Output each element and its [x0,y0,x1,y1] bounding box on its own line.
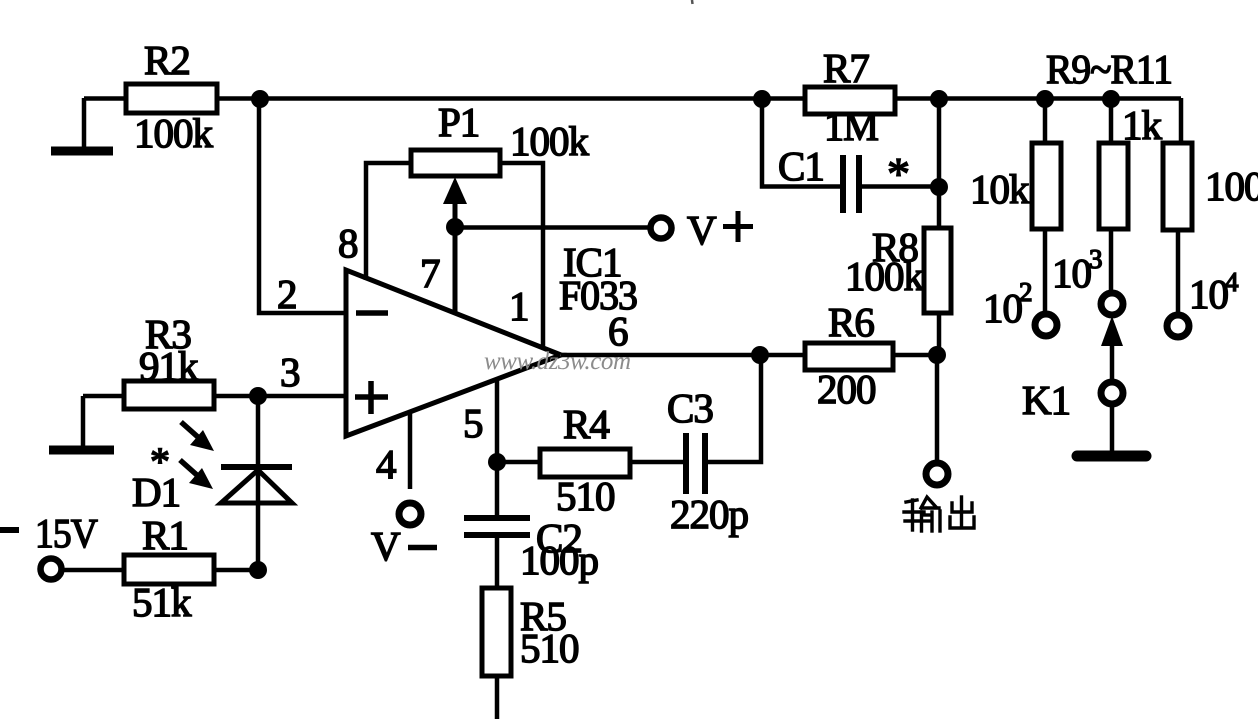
svg-text:5: 5 [463,400,483,446]
svg-text:7: 7 [420,250,440,296]
svg-text:10: 10 [1189,271,1228,317]
svg-text:100k: 100k [134,110,214,156]
svg-text:1M: 1M [824,103,879,149]
svg-text:510: 510 [556,473,615,519]
wire C2 to R5 [495,535,500,719]
svg-text:100k: 100k [510,118,590,164]
svg-text:*: * [887,148,910,199]
terminal V- [399,503,421,525]
svg-text:51k: 51k [132,579,192,625]
svg-text:100k: 100k [845,253,925,299]
svg-text:100p: 100p [520,537,598,583]
svg-text:1k: 1k [1122,102,1163,148]
capacitor C2 [464,518,530,535]
terminal -15V [41,559,62,580]
terminal K1 pole [1101,382,1123,404]
wire R8 column [937,98,942,355]
wire C1 branch [762,98,843,187]
svg-text:F033: F033 [559,272,637,318]
wire R4 row [497,460,686,465]
svg-text:C3: C3 [667,385,713,431]
potentiometer P1 [411,150,500,176]
terminal 10^4 [1167,315,1189,337]
node R6-R8 [928,346,946,364]
wiper arrow of P1 [443,177,467,313]
svg-text:2: 2 [1019,277,1033,307]
wire pin4 stem [408,413,413,489]
wire P1 right leg to pin1 [500,163,543,347]
node pin6 [751,346,769,364]
diode D1 [221,467,292,503]
svg-text:2: 2 [277,271,297,317]
resistor R11 [1163,143,1192,230]
svg-text:10k: 10k [970,166,1030,212]
wire P1 left leg to pin8 [366,163,411,280]
node R9 top [1036,90,1054,108]
terminal V+ [651,218,672,239]
svg-text:15V: 15V [35,510,98,556]
wire R9 column [1043,98,1048,313]
ground G1 [51,147,113,156]
ground G3 [1077,451,1146,462]
svg-text:R6: R6 [828,299,874,345]
node wiper junction [446,218,464,236]
light arrow 2 [180,460,213,489]
svg-text:C1: C1 [778,143,824,189]
node pin5-R4 [488,453,506,471]
resistor R8 [924,228,951,313]
svg-text:R2: R2 [144,37,190,83]
node R1-D1 [249,561,267,579]
wire R11 column [1179,98,1184,143]
resistor R10 [1099,143,1128,229]
wire K1 to ground [1110,405,1115,452]
wire R10 column [1109,98,1114,291]
svg-text:220p: 220p [670,491,748,537]
terminal 10^2 [1035,314,1057,336]
resistor R5 [482,588,511,676]
svg-text:R9~R11: R9~R11 [1046,46,1172,92]
node 3 [249,387,267,405]
capacitor C3 [686,433,705,494]
wire R1 row [63,568,258,573]
resistor R9 [1032,143,1061,229]
svg-text:200: 200 [817,366,876,412]
svg-text:V: V [687,207,717,253]
svg-text:V: V [371,523,401,569]
resistor R2 [126,84,217,113]
node C1 right [930,178,948,196]
wire output drop [935,355,940,462]
svg-text:3: 3 [1089,244,1103,274]
node R2-out [251,90,269,108]
resistor R1 [124,555,214,584]
wire pin2 from node to op-amp [259,98,346,313]
wire R3 ground stem [81,396,86,447]
svg-text:*: * [150,439,170,484]
svg-text:91k: 91k [139,343,199,389]
svg-text:R1: R1 [142,512,188,558]
light arrow 1 [181,422,214,451]
wire R2 ground stem [82,98,87,149]
svg-text:1: 1 [509,283,529,329]
scan tick [691,0,694,4]
label shuchu (output) [904,497,974,531]
svg-text:R4: R4 [563,401,609,447]
svg-text:8: 8 [338,220,358,266]
svg-text:3: 3 [280,349,300,395]
switch K1 wiper arrow [1101,316,1123,381]
capacitor C1 [843,155,859,213]
op-amp plus input mark [355,381,388,414]
resistor R4 [540,449,630,477]
op-amp U1 body [346,270,561,436]
node R10 top [1102,90,1120,108]
wire top rail [84,96,1181,101]
svg-text:R7: R7 [823,45,869,91]
wire R3 row [83,394,346,399]
wire output row pin6 [561,353,937,358]
node C1-R7 left [753,90,771,108]
svg-text:10: 10 [1052,250,1091,296]
terminal output [926,463,948,485]
ground G2 [49,446,114,455]
svg-text:P1: P1 [438,99,479,145]
svg-text:510: 510 [520,625,579,671]
wire V+ feed [455,225,649,230]
resistor R3 [124,381,214,409]
wire C3 to output node [705,355,761,462]
wire D1 branch down from node 3 [256,396,261,570]
svg-text:K1: K1 [1022,377,1070,423]
op-amp minus input mark [356,310,388,316]
node R7 right [930,90,948,108]
svg-text:100: 100 [1205,163,1258,209]
resistor R7 [805,87,895,114]
svg-text:10: 10 [983,285,1022,331]
svg-text:4: 4 [1225,267,1239,297]
svg-text:4: 4 [376,441,396,487]
resistor R6 [805,343,893,370]
terminal 10^3 [1101,293,1123,315]
wire pin5 stem [495,381,500,519]
